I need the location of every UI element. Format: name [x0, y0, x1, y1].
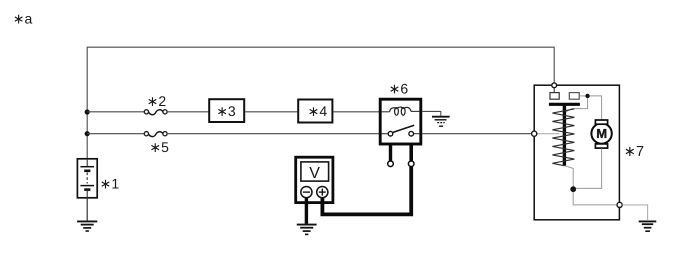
svg-text:∗5: ∗5 [149, 139, 169, 155]
svg-text:∗6: ∗6 [389, 81, 409, 97]
fuse *2 [144, 110, 167, 115]
wire top circle to terminal square [553, 88, 555, 93]
wire coil to ground [422, 111, 441, 115]
svg-text:∗4: ∗4 [308, 103, 328, 119]
sender track bar horizontal [549, 103, 580, 106]
contact circle right [409, 131, 414, 136]
voltmeter negative terminal [301, 187, 312, 198]
svg-text:∗2: ∗2 [147, 93, 167, 109]
thick lead relay terminal left [389, 145, 392, 161]
voltmeter case [296, 157, 333, 202]
connector circle (right terminal) [408, 161, 414, 167]
wire square2 to dot [580, 95, 586, 97]
switch blade [392, 125, 414, 132]
resistance winding zigzag [552, 109, 574, 166]
wire top B+ rail [87, 47, 554, 112]
wire relay to pump unit [422, 133, 532, 135]
wire motor bottom to junction [576, 149, 602, 189]
connector circle (pump right) [617, 202, 622, 207]
motor M (fuel pump motor) [591, 120, 611, 148]
relay *6 (fuel pump relay) [380, 99, 421, 144]
connector circle (left terminal) [388, 161, 394, 167]
svg-text:M: M [596, 126, 607, 141]
voltmeter V [296, 157, 333, 202]
svg-text:∗a: ∗a [13, 11, 33, 27]
junction dot (sender bottom) [570, 186, 576, 192]
wire box3 to box4 [245, 111, 297, 113]
coil [390, 108, 397, 112]
wire box4 to relay [333, 111, 380, 113]
terminal square 1 [550, 93, 559, 100]
voltmeter display window [301, 162, 329, 181]
box *3 [209, 99, 244, 122]
coil leads [382, 111, 390, 113]
wire battery to ground [86, 198, 88, 222]
svg-text:V: V [309, 165, 320, 182]
wire rail to battery [86, 112, 88, 159]
sender track bar vertical [563, 104, 566, 165]
wire lower feed to fuse [87, 133, 144, 135]
wire junction to right edge circle [573, 192, 617, 205]
ground (pump) [639, 221, 657, 231]
thick lead voltmeter minus to ground [305, 198, 308, 224]
ground (battery) [77, 221, 97, 231]
voltmeter positive terminal [317, 187, 328, 198]
wiper wire [566, 98, 588, 112]
terminal square 2 [569, 93, 579, 100]
ground (relay coil) [432, 117, 450, 127]
ground (voltmeter) [297, 225, 317, 235]
connector circle (pump top) [552, 83, 557, 88]
thick test lead to voltmeter plus [322, 167, 411, 215]
contact stubs [382, 133, 389, 135]
wire fuse5 to relay [167, 133, 380, 135]
wire upper feed to fuse [87, 111, 144, 113]
connector circle (pump left) [532, 131, 537, 136]
fuel pump unit box *7 [534, 85, 619, 220]
wire to pump ground [622, 205, 647, 220]
wire fuse2 to box3 [167, 111, 209, 113]
junction dot (sender top) [585, 94, 589, 98]
junction dot lower [85, 131, 90, 136]
wire feed to winding [537, 133, 560, 135]
box *4 [298, 100, 332, 123]
svg-text:∗3: ∗3 [216, 103, 236, 119]
wire dot to motor top [589, 96, 601, 120]
fuse *5 [144, 132, 167, 137]
battery *1 [77, 159, 97, 198]
contact circle left [388, 131, 393, 136]
thick lead relay terminal right [409, 145, 413, 161]
junction dot upper [85, 109, 90, 114]
wire track bottom to junction dot [565, 166, 573, 187]
svg-text:∗7: ∗7 [624, 144, 644, 160]
svg-text:∗1: ∗1 [100, 176, 120, 192]
